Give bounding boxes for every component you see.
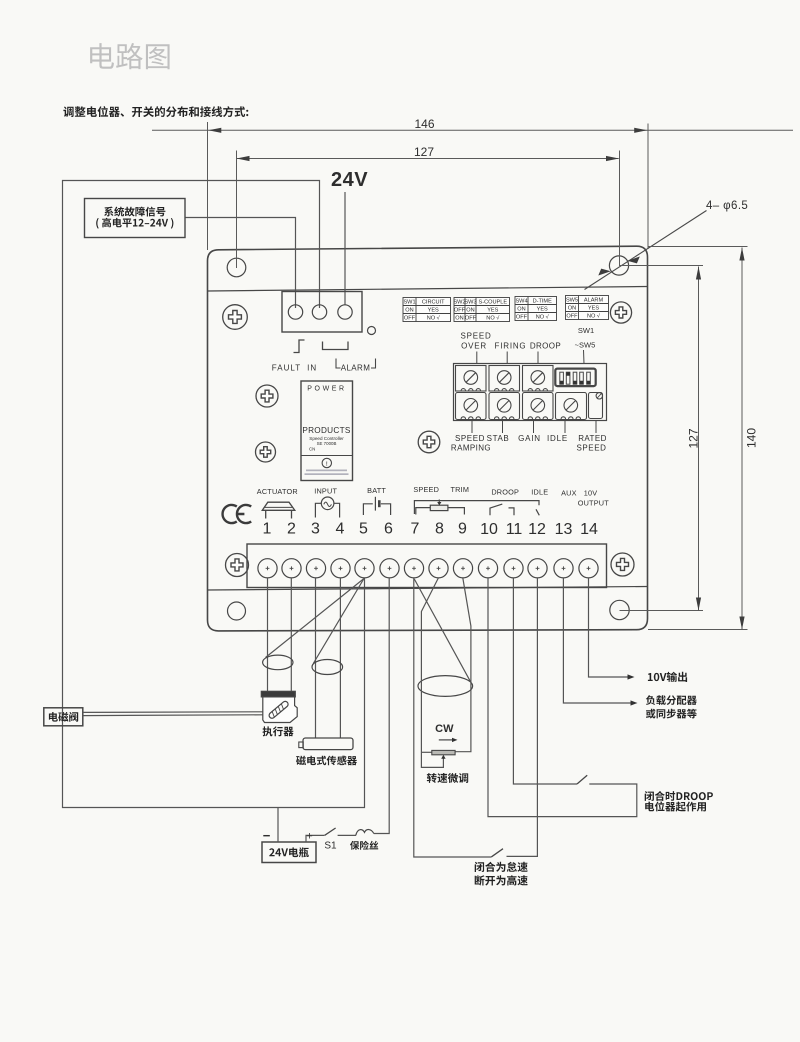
block terminal A: [288, 305, 302, 319]
screw top-right: [610, 302, 631, 323]
leader ticks bottom: [472, 421, 596, 434]
svg-text:ON: ON: [568, 306, 576, 312]
wire: middle terminal loop to ground line: [63, 181, 365, 808]
controller case outline: [208, 246, 648, 631]
terminal numbers 1-14: [263, 521, 598, 539]
svg-text:9: 9: [458, 521, 467, 538]
svg-text:GAIN: GAIN: [518, 434, 541, 443]
terminal strip: [247, 544, 607, 588]
svg-text:CIRCUIT: CIRCUIT: [422, 300, 445, 306]
svg-text:STAB: STAB: [487, 434, 510, 443]
svg-text:YES: YES: [487, 308, 498, 314]
indicator hole: [368, 327, 376, 335]
svg-text:!: !: [326, 461, 328, 468]
svg-text:OFF: OFF: [465, 316, 477, 322]
idle switch note 闭合为怠速 断开为高速: [475, 862, 528, 872]
pot IDLE: [556, 393, 587, 420]
svg-text:SPEED: SPEED: [413, 485, 439, 494]
svg-text:13: 13: [555, 521, 573, 538]
callout 4-φ6.5: [585, 211, 707, 290]
shield diagonal T7 to speed loop: [414, 579, 470, 681]
svg-text:OFF: OFF: [516, 315, 528, 321]
svg-text:SW1: SW1: [578, 326, 594, 335]
svg-text:BATT: BATT: [367, 486, 386, 495]
svg-text:24V: 24V: [331, 169, 368, 191]
terminal 4 screw: [331, 559, 350, 578]
terminal 7 screw: [404, 559, 423, 578]
mounting hole bottom-right: [610, 600, 629, 619]
dimension 127 line (vertical right): [619, 266, 703, 611]
svg-text:OFF: OFF: [566, 314, 578, 320]
svg-text:CN: CN: [309, 446, 315, 451]
svg-text:+: +: [306, 831, 312, 843]
svg-text:8: 8: [435, 521, 444, 538]
svg-text:FIRING: FIRING: [495, 342, 527, 351]
svg-text:YES: YES: [428, 308, 439, 314]
wiper arrowhead: [441, 755, 445, 759]
svg-text:SPEED: SPEED: [455, 434, 485, 443]
svg-text:ALARM: ALARM: [584, 298, 604, 304]
svg-text:146: 146: [414, 117, 434, 131]
svg-text:SW5: SW5: [566, 298, 578, 304]
svg-text:S1: S1: [324, 841, 337, 852]
svg-text:POWER: POWER: [307, 386, 346, 393]
sensor cable loop: [312, 660, 343, 675]
10V output note 10V输出: [648, 672, 687, 682]
pot FIRING: [489, 366, 520, 392]
svg-text:YES: YES: [537, 307, 548, 313]
wire T8 to pot left and wiper: [421, 578, 443, 768]
svg-text:SPEED: SPEED: [460, 332, 491, 341]
terminal 13 screw: [554, 559, 573, 578]
screw mid-left upper: [256, 385, 278, 407]
svg-text:D-TIME: D-TIME: [533, 299, 553, 305]
svg-text:NO √: NO √: [486, 315, 500, 322]
svg-text:SPEED: SPEED: [576, 444, 606, 453]
title 电路图 (gray): [90, 43, 170, 69]
pot GAIN: [523, 393, 554, 420]
svg-text:OFF: OFF: [404, 316, 416, 322]
panel top edge line: [208, 287, 648, 292]
potentiometer block outer frame: [454, 364, 607, 421]
battery plus lead: [306, 835, 324, 842]
mounting hole bottom-left: [228, 602, 246, 620]
svg-text:7: 7: [411, 521, 420, 538]
svg-text:4: 4: [336, 521, 345, 538]
svg-text:DROOP: DROOP: [530, 342, 561, 351]
svg-text:~SW5: ~SW5: [575, 341, 596, 350]
svg-text:SE 7000B: SE 7000B: [317, 441, 337, 446]
svg-text:CW: CW: [435, 723, 454, 735]
svg-text:12: 12: [528, 521, 546, 538]
block terminal B: [312, 305, 326, 319]
terminal 1 screw: [258, 559, 277, 578]
switch S1: [338, 834, 356, 836]
svg-text:3: 3: [311, 521, 320, 538]
wire T11 to droop switch: [513, 578, 577, 784]
svg-text:SW4: SW4: [515, 299, 527, 305]
svg-text:IDLE: IDLE: [547, 434, 568, 443]
CE mark: [223, 505, 252, 523]
wire: fault signal box to terminal A: [185, 218, 296, 309]
svg-text:ALARM: ALARM: [341, 364, 371, 373]
speed pot cable loop: [418, 676, 473, 697]
leader ticks top: [477, 352, 538, 365]
shield diagonal T5 to sensor loop: [313, 579, 364, 664]
svg-text:INPUT: INPUT: [314, 487, 337, 496]
svg-text:OVER: OVER: [461, 342, 487, 351]
svg-text:140: 140: [745, 428, 759, 448]
load divider note 负载分配器 或同步器等: [646, 695, 697, 705]
screw bottom-left: [226, 554, 249, 577]
screw top-left: [223, 305, 248, 330]
terminal 6 screw: [380, 559, 399, 578]
wire T14 to 10V output: [589, 578, 628, 677]
svg-text:SW3: SW3: [464, 300, 476, 306]
svg-text:S-COUPLE: S-COUPLE: [478, 300, 507, 306]
svg-text:NO √: NO √: [427, 315, 441, 322]
subtitle 调整电位器、开关的分布和接线方式:: [63, 106, 248, 117]
svg-text:127: 127: [687, 428, 701, 448]
svg-text:14: 14: [580, 521, 598, 538]
switch table SW1: [403, 298, 451, 322]
screw mid-center: [418, 431, 440, 453]
svg-text:11: 11: [506, 521, 523, 538]
svg-text:RAMPING: RAMPING: [451, 444, 491, 453]
svg-text:PRODUCTS: PRODUCTS: [302, 426, 351, 435]
terminal 11 screw: [504, 559, 523, 578]
fuse 保险丝: [356, 830, 374, 836]
idle switch symbol: [414, 501, 539, 516]
svg-text:IDLE: IDLE: [531, 488, 548, 497]
svg-text:127: 127: [414, 145, 434, 159]
svg-text:2: 2: [287, 521, 296, 538]
CW direction arrow: [439, 739, 454, 741]
svg-text:ON: ON: [466, 308, 474, 314]
droop loop wire T10: [488, 578, 637, 817]
svg-text:10V: 10V: [584, 489, 598, 498]
dimension 146 line: [152, 122, 793, 250]
wire T2 to actuator: [290, 578, 292, 692]
switch table SW2/SW3: [453, 298, 509, 322]
actuator symbol: [262, 502, 295, 518]
svg-text:AUX: AUX: [561, 489, 577, 498]
battery 24V: [262, 842, 316, 863]
svg-text:1: 1: [263, 521, 272, 538]
wire T1 to actuator: [267, 578, 269, 692]
svg-text:OUTPUT: OUTPUT: [578, 499, 610, 508]
magnetic pickup sensor 磁电式传感器: [299, 738, 353, 750]
screw bottom-right: [611, 553, 634, 576]
wire T3 to sensor: [315, 578, 317, 738]
terminal 8 screw: [429, 559, 448, 578]
leader SW5 to DIP: [583, 350, 586, 364]
svg-text:ACTUATOR: ACTUATOR: [257, 487, 298, 496]
system fault signal box: [85, 199, 186, 238]
terminal 3 screw: [306, 559, 325, 578]
DIP switch SW1-SW5: [555, 369, 595, 387]
idle switch blade: [492, 849, 504, 857]
droop switch blade: [577, 775, 587, 784]
svg-text:RATED: RATED: [578, 434, 607, 443]
dimension 140 line (vertical right): [648, 247, 748, 630]
svg-text:YES: YES: [588, 306, 599, 312]
svg-text:ON: ON: [455, 316, 463, 322]
panel bottom edge line: [208, 587, 648, 591]
svg-text:5: 5: [359, 521, 368, 538]
battery minus lead: [277, 808, 279, 843]
wire idle switch to T12: [507, 578, 538, 857]
svg-text:10: 10: [480, 521, 498, 538]
wire: 24V supply to terminal C: [344, 192, 346, 305]
speed trim potentiometer 转速微调: [432, 750, 455, 754]
svg-text:NO √: NO √: [536, 314, 550, 321]
pot DROOP: [523, 366, 554, 392]
wire T7 long run to idle switch: [414, 578, 492, 857]
terminal 12 screw: [528, 559, 547, 578]
label ALARM with brackets: [336, 359, 376, 369]
svg-text:4– φ6.5: 4– φ6.5: [706, 200, 748, 212]
svg-text:DROOP: DROOP: [491, 488, 519, 497]
svg-text:ON: ON: [405, 308, 413, 314]
terminal 5 screw: [355, 559, 374, 578]
svg-text:FAULT IN: FAULT IN: [272, 364, 317, 373]
pot STAB: [489, 393, 520, 420]
dimension 127 line (horizontal): [237, 151, 620, 269]
solenoid valve box 电磁阀: [44, 708, 83, 726]
svg-text:6: 6: [384, 521, 393, 538]
svg-text:TRIM: TRIM: [450, 485, 469, 494]
wire T13 to load divider: [563, 578, 630, 703]
actuator 执行器: [261, 691, 297, 722]
pot OVER SPEED: [456, 366, 487, 392]
terminal 10 screw: [478, 559, 497, 578]
block terminal C: [338, 305, 352, 319]
switch table SW4: [515, 297, 557, 321]
terminal 14 screw: [579, 559, 598, 578]
top terminal block: [282, 292, 362, 333]
speed trim pot symbol: [416, 500, 465, 515]
POWER PRODUCTS label plate: [301, 381, 353, 481]
shield diagonal T5 to actuator loop: [266, 579, 365, 658]
switch table SW5: [566, 296, 609, 320]
droop switch symbol: [490, 504, 514, 515]
mounting hole top-right: [609, 256, 628, 275]
alarm contact symbol: [323, 342, 349, 350]
svg-text:−: −: [263, 828, 271, 843]
input symbol (mag pickup): [315, 497, 339, 518]
screw mid-left lower: [256, 442, 276, 462]
rated speed trim cell: [589, 393, 603, 419]
wire T6 to fuse: [374, 578, 389, 834]
terminal 9 screw: [453, 559, 472, 578]
fault-in step symbol: [294, 340, 305, 353]
wire T4 to sensor: [339, 578, 341, 738]
actuator cable loop: [263, 655, 293, 670]
svg-text:NO √: NO √: [587, 313, 601, 320]
battery symbol: [363, 497, 390, 515]
wire pair solenoid to actuator: [83, 712, 263, 716]
svg-text:OFF: OFF: [454, 308, 466, 314]
mounting hole top-left: [227, 258, 246, 277]
pot SPEED RAMPING: [456, 393, 487, 420]
wire T9 to pot right: [455, 578, 471, 752]
svg-text:SW1: SW1: [403, 300, 415, 306]
terminal 2 screw: [282, 559, 301, 578]
droop switch note 闭合时DROOP 电位器起作用: [645, 791, 713, 801]
svg-text:ON: ON: [517, 307, 525, 313]
